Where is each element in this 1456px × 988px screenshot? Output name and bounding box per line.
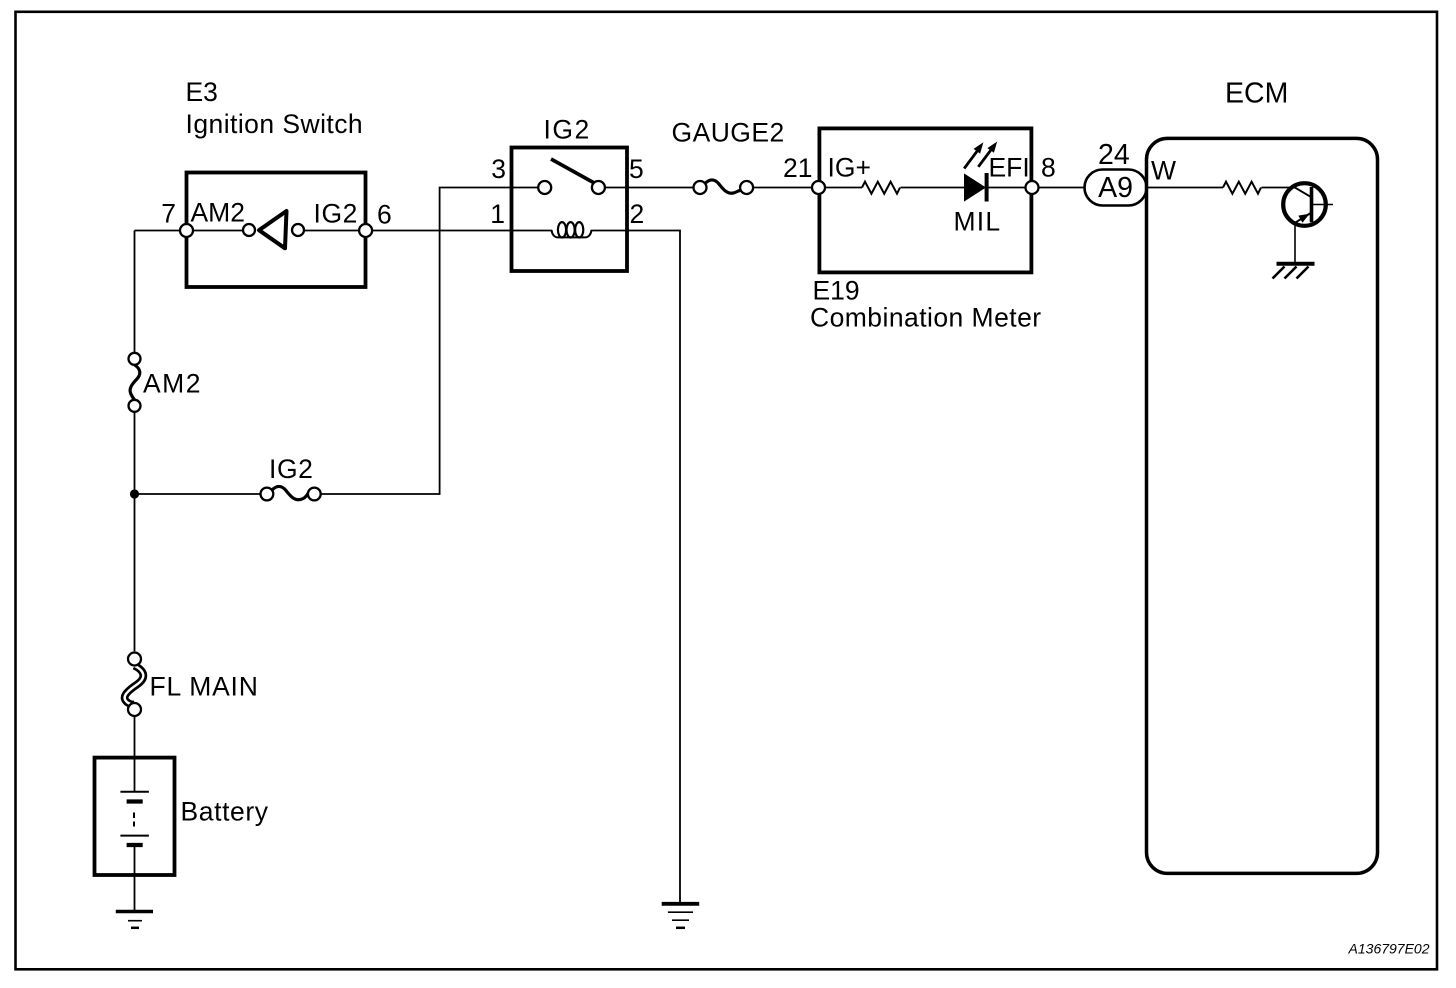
MIL LED arrow 2 (978, 149, 991, 167)
fuse AM2 wave (130, 365, 140, 400)
svg-text:3: 3 (491, 154, 506, 184)
battery cell 2 long plate (120, 835, 148, 837)
svg-text:W: W (1151, 156, 1176, 186)
svg-text:IG2: IG2 (544, 115, 591, 145)
ECM box (1147, 138, 1378, 873)
svg-text:8: 8 (1041, 153, 1056, 183)
connector A9 oval (1085, 170, 1147, 206)
ECM resistor (1223, 182, 1261, 194)
svg-text:IG2: IG2 (314, 199, 359, 229)
fuse IG2 circles (261, 488, 274, 501)
MIL LED cathode bar (985, 173, 989, 202)
MIL LED arrow 1 (964, 150, 978, 168)
terminal 21 circle (812, 181, 825, 194)
svg-text:IG2: IG2 (269, 454, 314, 484)
svg-text:21: 21 (783, 153, 812, 183)
wire: battery bottom to ground (134, 845, 136, 910)
MIL LED triangle (965, 174, 986, 200)
fuse GAUGE2 wave (705, 180, 741, 193)
svg-text:24: 24 (1098, 139, 1130, 171)
wire: meter internal IG+ to resistor to MIL to terminal 8 (819, 187, 1033, 189)
transistor base lead (1295, 187, 1312, 197)
wire: relay coil pin2 to center ground (591, 231, 680, 903)
terminal 7 circle (180, 224, 193, 237)
wire: A9 into ECM to resistor to transistor (1146, 187, 1295, 189)
transistor Q1 circle (1283, 183, 1326, 226)
svg-text:AM2: AM2 (143, 369, 202, 399)
ignition switch contact triangle (259, 211, 287, 248)
fuse IG2 wave (272, 486, 309, 499)
fusible link circles (128, 653, 141, 666)
svg-text:A9: A9 (1098, 172, 1133, 204)
relay switch blade (551, 159, 597, 185)
terminal 6 circle (359, 224, 372, 237)
svg-text:ECM: ECM (1225, 78, 1288, 110)
combination meter box (819, 128, 1031, 272)
wire: battery positive vertical (corner at top to AM2 fuse) (135, 231, 187, 354)
svg-text:E19: E19 (813, 276, 860, 306)
wire: AM2 fuse to junction to FL MAIN (134, 412, 136, 652)
center ground line 3 (672, 919, 689, 921)
wire: junction to IG2 fuse to vertical riser to relay pin 3 (135, 188, 694, 495)
center ground dash (676, 927, 685, 930)
transistor collector line (1312, 204, 1334, 206)
battery cell 1 short plate (127, 799, 143, 803)
fuse AM2 circles (129, 353, 141, 365)
svg-text:5: 5 (629, 154, 644, 184)
transistor base bar (1310, 187, 1314, 222)
svg-text:Combination Meter: Combination Meter (810, 303, 1042, 333)
relay IG2 box (512, 148, 628, 272)
ECM ground hatch 1 (1273, 267, 1285, 279)
svg-text:1: 1 (490, 199, 505, 229)
svg-text:FL MAIN: FL MAIN (150, 672, 259, 702)
wire: terminal 8 to A9 connector (1032, 187, 1085, 189)
svg-text:7: 7 (161, 199, 176, 229)
svg-text:E3: E3 (186, 77, 218, 107)
svg-text:A136797E02: A136797E02 (1348, 941, 1430, 957)
wire: E3 row from terminal 7 to relay coil, crossing riser (187, 230, 553, 232)
relay coil (552, 230, 592, 237)
svg-text:GAUGE2: GAUGE2 (672, 118, 785, 148)
ECM ground hatch 2 (1285, 267, 1297, 279)
svg-text:IG+: IG+ (828, 153, 871, 183)
ECM ground hatch 3 (1297, 267, 1309, 279)
ECM ground bar (1277, 262, 1315, 266)
battery cell 2 short plate (127, 843, 143, 847)
transistor emitter arrowhead (1298, 214, 1309, 223)
fusible link FL MAIN band (125, 666, 144, 705)
relay contact circles (538, 181, 551, 194)
wire: emitter to ECM ground (1294, 223, 1296, 263)
svg-text:AM2: AM2 (191, 198, 246, 228)
center ground line 2 (668, 911, 693, 913)
meter resistor (862, 182, 900, 194)
svg-text:EFI: EFI (989, 153, 1030, 183)
svg-text:Ignition Switch: Ignition Switch (186, 109, 364, 139)
svg-text:2: 2 (630, 199, 645, 229)
battery box (95, 758, 175, 875)
battery ground line 2 (128, 920, 142, 922)
battery cell dashes (133, 813, 135, 819)
terminal 8 circle (1026, 181, 1039, 194)
ignition switch contact circles (243, 224, 255, 236)
battery cell 1 long plate (120, 791, 148, 793)
center ground bar (662, 902, 700, 906)
svg-text:Battery: Battery (181, 797, 269, 827)
E3 ignition switch box (187, 173, 366, 288)
svg-text:MIL: MIL (954, 207, 1002, 237)
wire: FL MAIN to battery (134, 716, 136, 792)
svg-text:6: 6 (377, 200, 392, 230)
fuse GAUGE2 circles (694, 181, 707, 194)
battery ground dash (131, 927, 139, 930)
junction node (130, 489, 139, 498)
battery ground bar (116, 910, 153, 913)
wire: GAUGE2 fuse to meter terminal 21 (753, 187, 818, 189)
transistor emitter line (1296, 213, 1312, 223)
